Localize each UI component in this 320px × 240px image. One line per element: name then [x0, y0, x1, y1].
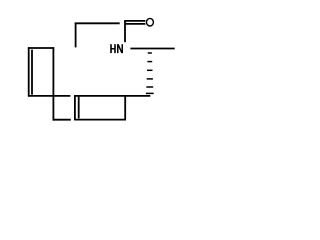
hashed wedge dash 6	[146, 92, 154, 94]
hashed wedge dash 3	[147, 69, 153, 71]
ring R1 top edge	[28, 47, 54, 49]
bond CH3-CH2 (ethyl terminal, vertical)	[75, 23, 77, 48]
double bond C=O lower line	[125, 23, 145, 25]
bond N-CH and CH-CH3 (horizontal)	[130, 48, 174, 50]
ring R3 bottom edge	[74, 119, 126, 121]
ring R2 bottom edge	[53, 119, 71, 121]
double bond C=O upper line	[124, 20, 145, 22]
atom label HN: letter N	[117, 44, 123, 53]
hashed wedge dash 1	[148, 52, 152, 54]
ring R1 bottom edge	[28, 95, 70, 97]
ring R1 right edge (shared with R2 left)	[52, 47, 54, 120]
ring R3 right edge	[124, 96, 126, 120]
bond CH2-C(carbonyl) (top horizontal)	[75, 22, 120, 24]
ring R3 left edge	[74, 95, 76, 120]
ring R1 inner double-bond line	[31, 50, 33, 95]
ring R3 inner double-bond line	[78, 96, 80, 118]
atom label O (drawn as ring)	[147, 18, 154, 26]
hashed wedge dash 4	[147, 78, 153, 80]
ring R1 left edge	[28, 47, 30, 96]
hashed wedge dash 5	[146, 86, 153, 88]
bond C(carbonyl)-N (vertical)	[124, 21, 126, 42]
bond ring-CH long horizontal (ring top edge to stereocenter)	[75, 95, 151, 97]
atom label HN (drawn as glyph strokes): letter H	[110, 44, 116, 53]
hashed wedge dash 2	[147, 61, 152, 63]
